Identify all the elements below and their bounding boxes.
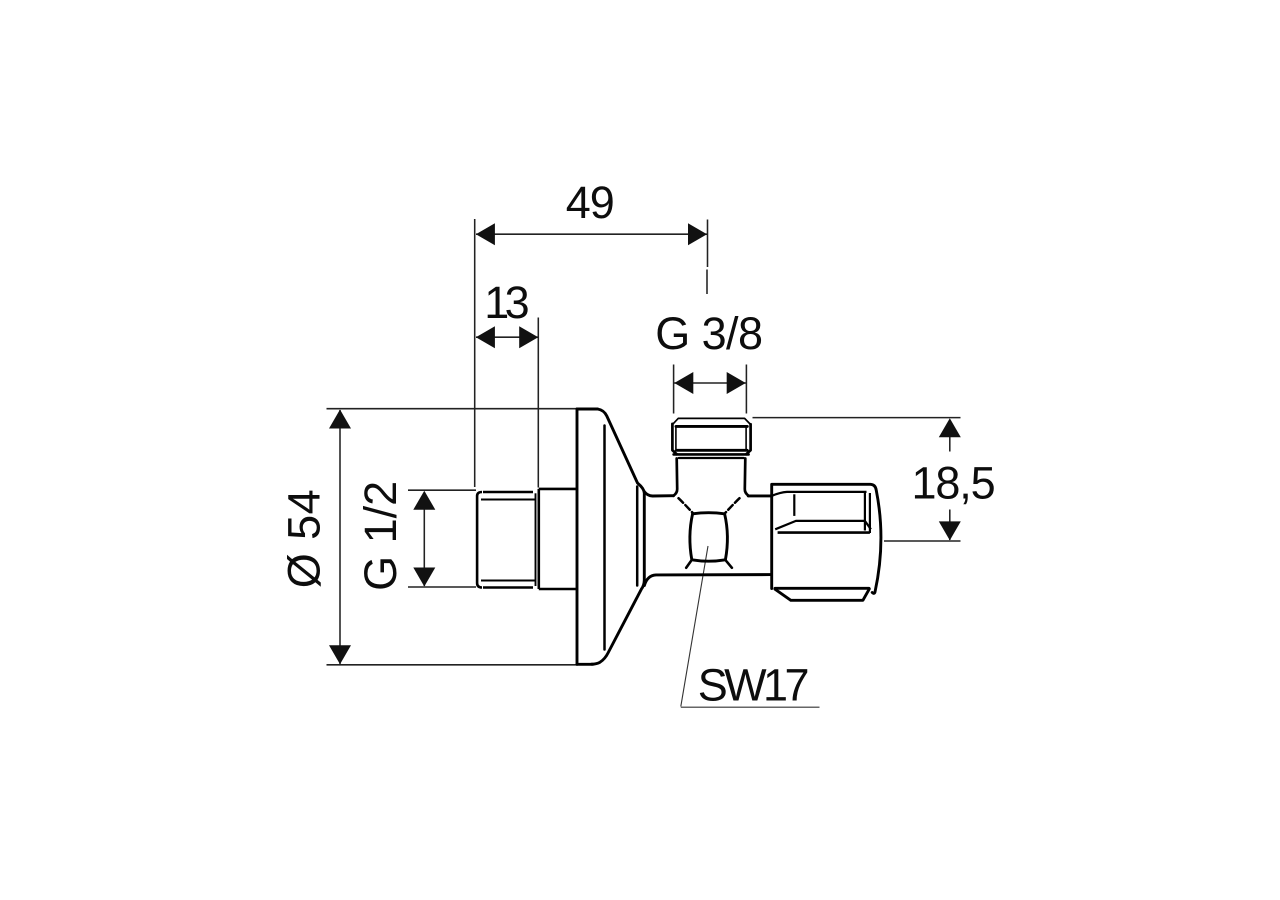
svg-text:G 3/8: G 3/8: [655, 308, 763, 359]
svg-text:G 1/2: G 1/2: [355, 481, 406, 591]
svg-text:Ø 54: Ø 54: [279, 489, 330, 588]
svg-text:13: 13: [484, 277, 530, 328]
svg-text:49: 49: [566, 177, 615, 228]
svg-text:18,5: 18,5: [912, 458, 996, 509]
svg-text:SW17: SW17: [698, 660, 810, 711]
